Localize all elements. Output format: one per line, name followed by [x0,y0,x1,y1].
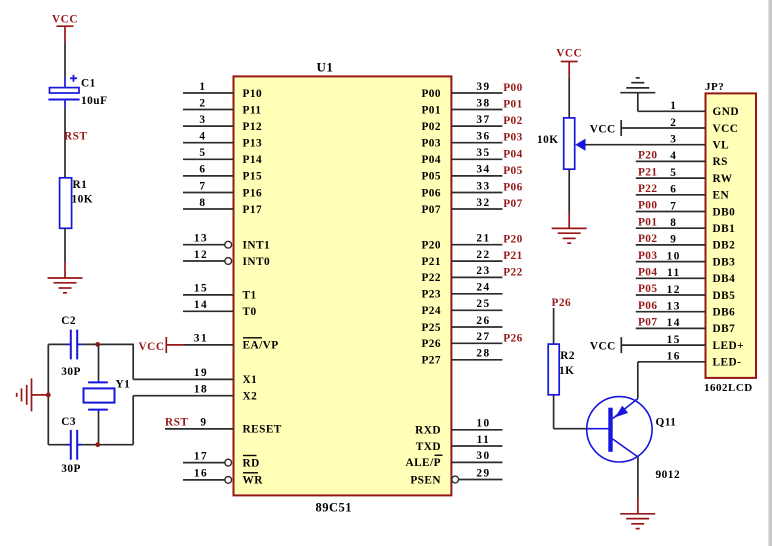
pin 34 P05 (wire + number + name + net label) [451,175,502,177]
svg-text:GND: GND [713,106,739,118]
svg-text:X2: X2 [243,391,258,403]
JP pin 4 RS [636,160,706,162]
svg-text:11: 11 [477,434,491,446]
ground (below potentiometer) [552,227,587,229]
capacitor C3 30P [48,444,66,446]
pin 28 P27 [451,359,502,361]
JP pin 15 LED+ [621,344,705,346]
pin 22 P21 with net label P21 [451,260,502,262]
pin 6 P15 (wire + number + name) [183,175,234,177]
svg-text:RD: RD [243,457,260,469]
JP pin 13 DB6 [636,311,706,313]
svg-text:VCC: VCC [556,48,582,60]
svg-text:RS: RS [713,156,728,168]
JP pin 7 DB0 [636,211,706,213]
svg-text:WR: WR [243,475,264,487]
svg-text:P05: P05 [503,165,523,177]
pin 12 INT0 (inverted) [183,260,225,262]
svg-text:10uF: 10uF [81,95,107,107]
svg-text:12: 12 [194,249,208,261]
pin 13 INT1 (inverted) [183,244,225,246]
wire X2 net to chip pin 18 [132,396,134,445]
svg-text:P13: P13 [243,138,263,150]
svg-text:C3: C3 [61,416,76,428]
svg-text:P07: P07 [638,317,658,329]
crystal Y1 [98,344,100,380]
pin 38 P01 (wire + number + name + net label) [451,109,502,111]
svg-text:12: 12 [667,284,681,296]
svg-text:DB3: DB3 [713,256,736,268]
svg-text:VCC: VCC [52,14,78,26]
svg-text:P17: P17 [243,204,263,216]
svg-text:LED+: LED+ [713,340,744,352]
svg-text:13: 13 [194,233,208,245]
svg-text:P24: P24 [421,305,441,317]
pin 37 P02 (wire + number + name + net label) [451,125,502,127]
svg-text:37: 37 [476,114,490,126]
svg-text:23: 23 [476,265,490,277]
svg-text:P22: P22 [503,266,523,278]
pin 29 PSEN (inverted) [452,476,459,483]
svg-text:P00: P00 [421,88,441,100]
svg-text:LED-: LED- [713,357,742,369]
svg-text:P05: P05 [421,171,441,183]
pin 10 RXD [451,429,502,431]
svg-text:C2: C2 [61,315,76,327]
svg-text:P02: P02 [421,121,441,133]
pin 2 P11 (wire + number + name) [183,109,234,111]
svg-text:T1: T1 [243,290,257,302]
pin 15 T1 [183,294,234,296]
svg-text:P04: P04 [421,154,441,166]
ground (flipped, at JP pin 1) [637,93,639,112]
svg-text:RESET: RESET [243,424,282,436]
capacitor C1 (electrolytic 10uF) [64,78,66,88]
svg-text:7: 7 [199,180,206,192]
svg-text:16: 16 [194,468,208,480]
resistor R1 10K [60,178,72,229]
svg-text:P21: P21 [421,256,441,268]
svg-text:DB7: DB7 [713,323,736,335]
svg-text:P01: P01 [503,99,523,111]
junction node (C3 / Y1 / X2) [95,442,100,447]
pin 14 T0 [183,310,234,312]
svg-text:P04: P04 [503,148,523,160]
wire C1 to R1 [64,108,66,177]
JP pin 5 RW [636,177,706,179]
svg-text:P22: P22 [421,272,441,284]
JP pin 1 GND [638,110,706,112]
svg-text:P26: P26 [421,338,441,350]
svg-text:8: 8 [199,197,206,209]
svg-text:RXD: RXD [415,425,441,437]
svg-text:DB1: DB1 [713,223,736,235]
wire emitter to ground [637,457,639,498]
pin 9 RESET [165,428,234,430]
svg-text:DB5: DB5 [713,290,736,302]
svg-text:15: 15 [667,334,681,346]
wire VCC to C1 [64,43,66,78]
pin 24 P23 [451,293,502,295]
pin 26 P25 [451,326,502,328]
wire pot bottom to ground [568,169,570,212]
svg-text:VCC: VCC [713,123,739,135]
svg-text:10: 10 [476,418,490,430]
scrollbar strip at right edge [769,0,772,546]
pin 25 P24 [451,309,502,311]
svg-text:36: 36 [476,131,490,143]
svg-text:P20: P20 [421,240,441,252]
svg-text:89C51: 89C51 [316,501,353,515]
svg-text:P03: P03 [421,138,441,150]
svg-text:P12: P12 [243,121,263,133]
wire R2 to transistor base [553,395,555,429]
potentiometer wiper arrow [575,139,585,151]
svg-text:30P: 30P [61,366,81,378]
svg-text:9: 9 [200,417,207,429]
svg-text:2: 2 [670,117,677,129]
svg-text:5: 5 [199,147,206,159]
svg-text:28: 28 [476,348,490,360]
svg-text:P25: P25 [421,322,441,334]
svg-text:P07: P07 [421,204,441,216]
svg-text:INT0: INT0 [243,256,271,268]
JP pin 9 DB2 [636,244,706,246]
svg-text:P15: P15 [243,171,263,183]
svg-text:R1: R1 [73,179,88,191]
svg-text:6: 6 [199,164,206,176]
svg-text:27: 27 [476,331,490,343]
svg-text:1: 1 [199,81,206,93]
svg-text:25: 25 [476,298,490,310]
svg-text:P05: P05 [638,283,658,295]
potentiometer 10K body [564,118,575,169]
JP pin 12 DB5 [636,294,706,296]
svg-text:11: 11 [667,267,681,279]
svg-text:EA/VP: EA/VP [243,340,279,352]
svg-text:VCC: VCC [590,341,616,353]
IC U1 89C51 body [234,76,452,495]
svg-text:35: 35 [476,147,490,159]
svg-text:Y1: Y1 [116,379,131,391]
svg-text:38: 38 [476,97,490,109]
pin 39 P00 (wire + number + name + net label) [451,92,502,94]
svg-text:10: 10 [667,250,681,262]
svg-text:VL: VL [713,140,730,152]
svg-text:P00: P00 [638,200,658,212]
pin 21 P20 with net label P20 [451,244,502,246]
svg-text:1K: 1K [559,365,574,377]
wire VCC to potentiometer [568,78,570,118]
svg-text:P02: P02 [638,233,658,245]
svg-text:P06: P06 [503,182,523,194]
JP pin 3 VL [585,144,706,146]
svg-text:X1: X1 [243,374,258,386]
svg-text:INT1: INT1 [243,240,271,252]
svg-text:P03: P03 [638,250,658,262]
svg-text:2: 2 [199,97,206,109]
connector JP? body (1602 LCD) [706,93,757,378]
svg-text:31: 31 [194,333,208,345]
resistor R2 1K [548,344,559,395]
svg-text:DB6: DB6 [713,307,736,319]
svg-text:RST: RST [165,417,188,429]
ground (below transistor) [620,513,655,515]
transistor Q11 9012 (PNP) [587,397,652,462]
svg-text:Q11: Q11 [656,417,677,429]
pin 35 P04 (wire + number + name + net label) [451,158,502,160]
pin 8 P17 (wire + number + name) [183,208,234,210]
svg-text:9: 9 [670,234,677,246]
pin 11 TXD [451,445,502,447]
svg-text:1: 1 [670,100,677,112]
JP pin 14 DB7 [636,327,706,329]
svg-text:3: 3 [670,134,677,146]
svg-text:P27: P27 [421,355,441,367]
svg-text:18: 18 [194,384,208,396]
svg-text:30: 30 [476,450,490,462]
pin 5 P14 (wire + number + name) [183,158,234,160]
svg-text:RW: RW [713,173,733,185]
svg-text:13: 13 [667,301,681,313]
svg-text:4: 4 [670,150,677,162]
svg-text:4: 4 [199,131,206,143]
pin 27 P26 with net label P26 [451,342,502,344]
svg-text:14: 14 [194,299,208,311]
pin 18 X2 [133,395,233,397]
wire ground stub (crystal) [32,394,48,396]
pin 30 ALE/P [451,461,502,463]
pin 7 P16 (wire + number + name) [183,192,234,194]
svg-text:30P: 30P [61,463,81,475]
capacitor C2 30P [48,343,66,345]
svg-text:P26: P26 [503,332,523,344]
ground (below R1) [48,277,83,279]
svg-text:RST: RST [64,130,87,142]
pin 16 WR (inverted) [183,479,225,481]
svg-text:P03: P03 [503,132,523,144]
svg-text:34: 34 [476,164,490,176]
svg-text:EN: EN [713,190,730,202]
pin 23 P22 with net label P22 [451,276,502,278]
svg-text:P21: P21 [503,250,523,262]
svg-text:6: 6 [670,184,677,196]
ground (rotated, left of crystal) [31,378,33,411]
svg-text:U1: U1 [317,60,334,75]
svg-text:P22: P22 [638,183,658,195]
pin 32 P07 (wire + number + name + net label) [451,208,502,210]
svg-text:P07: P07 [503,198,523,210]
svg-text:21: 21 [476,233,490,245]
svg-text:P21: P21 [638,166,658,178]
svg-text:C1: C1 [81,78,96,90]
svg-text:JP?: JP? [705,81,724,93]
pin 1 P10 (wire + number + name) [183,92,234,94]
svg-text:39: 39 [476,81,490,93]
JP pin 11 DB4 [636,277,706,279]
wire R1 to ground [64,228,66,262]
svg-text:P00: P00 [503,82,523,94]
svg-text:9012: 9012 [656,469,681,481]
svg-text:P20: P20 [638,150,658,162]
svg-text:26: 26 [476,315,490,327]
svg-text:P14: P14 [243,154,263,166]
svg-text:R2: R2 [560,350,575,362]
wire LED- (JP pin 16) down to collector [637,362,639,399]
pin 19 X1 [133,378,233,380]
JP pin 16 LED- [638,361,706,363]
svg-text:P23: P23 [421,289,441,301]
svg-text:19: 19 [194,367,208,379]
svg-text:P06: P06 [421,187,441,199]
svg-text:22: 22 [476,249,490,261]
svg-text:P20: P20 [503,234,523,246]
JP pin 2 VCC [621,127,705,129]
pin 36 P03 (wire + number + name + net label) [451,142,502,144]
svg-text:32: 32 [476,197,490,209]
pin 33 P06 (wire + number + name + net label) [451,192,502,194]
svg-text:PSEN: PSEN [410,474,441,486]
svg-text:P01: P01 [421,104,441,116]
svg-text:T0: T0 [243,306,257,318]
JP pin 8 DB1 [636,227,706,229]
wire X1 net to chip pin 19 [132,344,134,380]
junction node (ground / rail) [46,393,51,398]
wire P26 to R2 [553,308,555,344]
svg-text:1602LCD: 1602LCD [704,382,753,394]
pin 3 P12 (wire + number + name) [183,125,234,127]
JP pin 10 DB3 [636,261,706,263]
wire C3 to X2 corner [82,444,133,446]
svg-text:7: 7 [670,200,677,212]
svg-text:P11: P11 [243,104,262,116]
svg-text:14: 14 [667,317,681,329]
wire C2 to X1 corner [82,343,133,345]
pin 31 EA/VP [183,344,233,346]
svg-text:16: 16 [667,351,681,363]
svg-text:29: 29 [476,467,490,479]
svg-text:DB0: DB0 [713,206,736,218]
svg-text:10K: 10K [72,194,94,206]
svg-text:P02: P02 [503,115,523,127]
svg-text:VCC: VCC [590,124,616,136]
svg-text:P06: P06 [638,300,658,312]
svg-text:P10: P10 [243,88,263,100]
JP pin 6 EN [636,194,706,196]
svg-text:TXD: TXD [416,441,441,453]
pin 17 RD (inverted) [183,462,225,464]
svg-text:P16: P16 [243,187,263,199]
svg-text:15: 15 [194,283,208,295]
svg-text:DB2: DB2 [713,240,736,252]
svg-text:24: 24 [476,282,490,294]
svg-text:P04: P04 [638,267,658,279]
svg-text:10K: 10K [537,134,559,146]
svg-text:P26: P26 [552,297,572,309]
svg-text:DB4: DB4 [713,273,736,285]
svg-text:ALE/P: ALE/P [405,457,441,469]
svg-text:8: 8 [670,217,677,229]
svg-text:17: 17 [194,450,208,462]
svg-text:3: 3 [199,114,206,126]
junction node (C2 / Y1 / X1) [95,342,100,347]
svg-text:P01: P01 [638,216,658,228]
svg-text:33: 33 [476,180,490,192]
wire crystal left rail [47,344,49,444]
svg-text:5: 5 [670,167,677,179]
pin 4 P13 (wire + number + name) [183,142,234,144]
svg-text:VCC: VCC [139,341,165,353]
